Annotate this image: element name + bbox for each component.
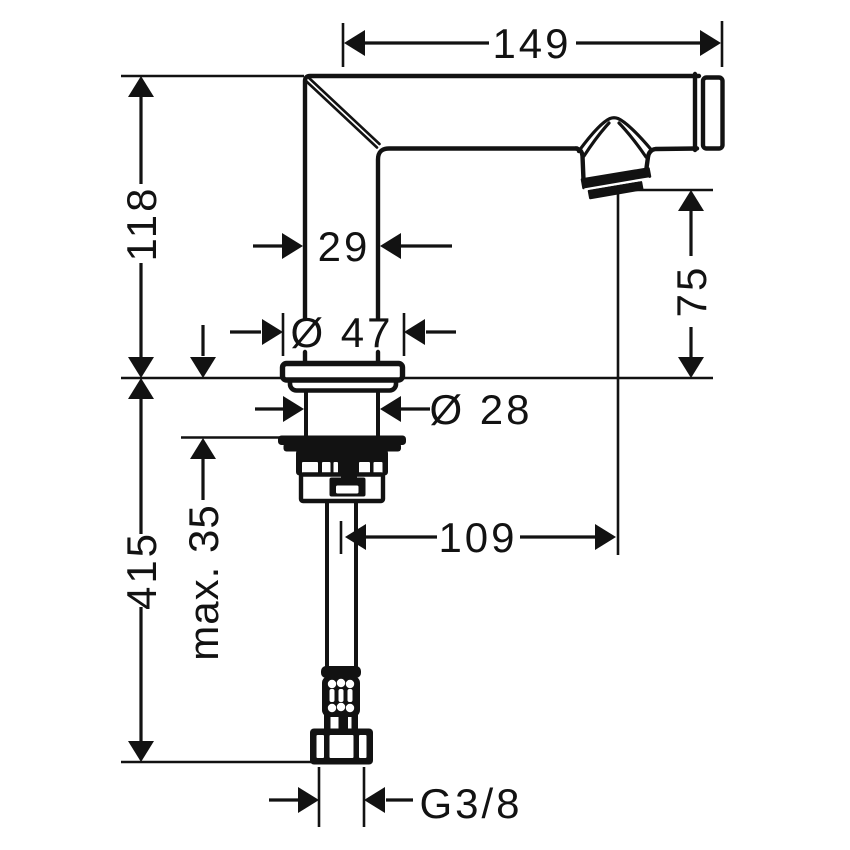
dimension 149 xyxy=(343,20,722,67)
dimension 118 xyxy=(118,76,304,378)
baseline at pipe end xyxy=(121,761,363,764)
svg-text:415: 415 xyxy=(118,531,165,610)
shank neck xyxy=(306,391,378,436)
svg-text:118: 118 xyxy=(118,186,165,262)
corrugated seal section xyxy=(322,676,360,717)
dimension max. 35 xyxy=(180,325,281,661)
svg-text:75: 75 xyxy=(668,265,715,318)
gasket lower bar xyxy=(284,443,402,452)
spout end cap xyxy=(703,78,723,149)
aerator lower ring xyxy=(589,182,642,198)
svg-text:max. 35: max. 35 xyxy=(180,504,227,660)
svg-text:29: 29 xyxy=(318,223,371,270)
dimension G3/8 xyxy=(269,767,523,827)
dimension dia 28 xyxy=(255,386,533,433)
lower mounting housing xyxy=(301,475,383,502)
dimension dia 47 xyxy=(230,309,456,356)
dimension 109 xyxy=(341,514,616,561)
svg-text:Ø 28: Ø 28 xyxy=(429,386,532,433)
fitting collar xyxy=(321,666,361,678)
svg-text:Ø 47: Ø 47 xyxy=(290,309,393,356)
svg-text:109: 109 xyxy=(438,514,517,561)
aerator white separation line xyxy=(585,179,650,190)
aerator face band xyxy=(582,169,650,189)
deck / mounting surface line xyxy=(121,377,713,380)
hose stub strips xyxy=(324,715,358,731)
aerator cone curves xyxy=(579,118,652,157)
svg-text:149: 149 xyxy=(492,20,571,67)
dimension 29 xyxy=(253,223,452,270)
knurl slots xyxy=(302,462,383,474)
escutcheon lip xyxy=(290,376,396,391)
aerator outlet body xyxy=(576,149,697,181)
gasket upper bar xyxy=(278,436,406,446)
aerator centerline xyxy=(617,192,620,555)
clip tab xyxy=(341,461,357,481)
clip window xyxy=(336,486,359,494)
clip body xyxy=(330,478,366,497)
dimension 75 xyxy=(620,190,715,378)
connection nut G3/8 xyxy=(310,729,373,765)
escutcheon flange xyxy=(283,364,403,381)
svg-text:G3/8: G3/8 xyxy=(419,780,522,827)
supply pipe xyxy=(327,501,356,667)
knurled lock nut xyxy=(296,450,388,476)
dimension 415 xyxy=(118,378,165,762)
spout taper fold lines xyxy=(306,78,380,148)
spout outline xyxy=(305,74,699,364)
